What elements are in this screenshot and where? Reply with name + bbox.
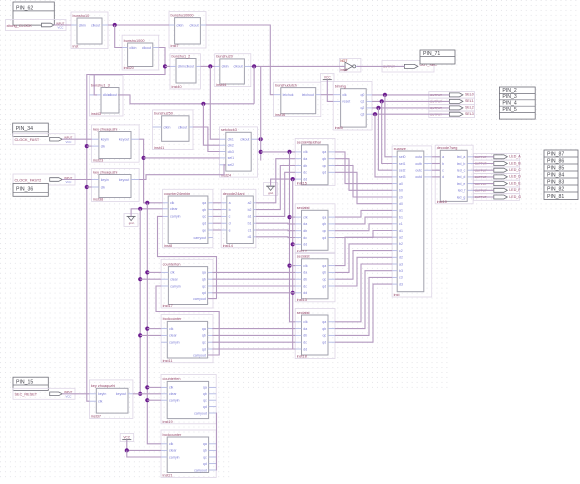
svg-text:dd: dd (303, 291, 307, 295)
svg-text:inst41: inst41 (154, 146, 164, 150)
svg-text:clkout: clkout (189, 23, 198, 27)
junction latch clk trunk start (259, 150, 263, 154)
svg-text:inst24: inst24 (221, 173, 231, 177)
svg-text:PIN_81: PIN_81 (547, 194, 564, 200)
wire down to setclock3 clk2 (203, 104, 219, 145)
wire latch clk row to seclat1 (261, 151, 296, 153)
svg-text:VCC: VCC (66, 394, 72, 398)
svg-text:qa: qa (202, 201, 206, 205)
svg-text:inst: inst (73, 45, 80, 49)
wire counterten carryout to counter24 carryin (158, 216, 217, 298)
wire tap bcdcounter clk (147, 328, 161, 330)
svg-text:inst14: inst14 (223, 244, 233, 248)
junction key clock at key2 clk (85, 185, 89, 189)
output pin LED_F (474, 187, 522, 194)
wire bunshu10000 clkout to bunshudutch clkin (206, 25, 274, 95)
svg-text:qa: qa (202, 271, 206, 275)
wire bunshu250 clkout to setclock3 clk3 (193, 127, 220, 152)
svg-text:qc: qc (322, 334, 326, 338)
svg-text:bunshu10000: bunshu10000 (171, 13, 194, 17)
svg-text:inst38: inst38 (93, 198, 103, 202)
svg-text:da: da (303, 157, 307, 161)
wire GND riser to clear net (131, 209, 163, 217)
svg-text:VCC: VCC (123, 435, 130, 439)
svg-text:keyin: keyin (101, 178, 109, 182)
svg-text:clkout: clkout (240, 138, 249, 142)
svg-text:bcdcounter: bcdcounter (163, 433, 183, 437)
svg-text:a1: a1 (399, 209, 403, 213)
svg-text:qb: qb (322, 157, 326, 161)
svg-text:clk1: clk1 (228, 138, 234, 142)
junction clear trunk top (138, 207, 142, 211)
wire counter24 qc to decode24 c (213, 215, 221, 217)
svg-text:leichuk: leichuk (283, 93, 294, 97)
svg-text:counterten: counterten (163, 262, 181, 266)
output pin LED_B (474, 160, 522, 167)
output pin SEL2 (429, 105, 475, 112)
svg-text:qa: qa (322, 264, 326, 268)
svg-text:led_e: led_e (457, 182, 466, 186)
svg-text:carryin: carryin (170, 215, 181, 219)
junction at bunshu20 clkin for setclock clk1 (208, 64, 212, 68)
svg-text:inst7: inst7 (171, 44, 179, 48)
wire biming q2 to SEL2 output (372, 107, 449, 109)
wire SEL2 to xuanze sel2 (378, 108, 392, 170)
wire decode24 a1 to seclat1 dc (256, 172, 295, 216)
junction clear tap bcdcounter (138, 333, 142, 337)
wire tap to key2 clk (87, 186, 92, 188)
wire xuanze outb to decode7seg b (432, 163, 441, 165)
junction latch clk trunk (287, 150, 291, 154)
svg-text:PIN_4: PIN_4 (502, 101, 517, 107)
svg-text:a2: a2 (248, 201, 252, 205)
svg-text:a1: a1 (248, 215, 252, 219)
svg-text:bunshu1_2: bunshu1_2 (172, 54, 191, 58)
svg-text:bcdcounter: bcdcounter (163, 317, 183, 321)
svg-text:counter24enbin: counter24enbin (164, 192, 190, 196)
wire tap seclat2 clk (290, 216, 296, 218)
svg-text:inst44: inst44 (216, 83, 226, 87)
wire scan net vertical (260, 66, 262, 160)
svg-text:inst5: inst5 (335, 126, 343, 130)
svg-text:PIN_15: PIN_15 (16, 379, 33, 385)
junction latch clk tap inst13 (287, 264, 291, 268)
svg-text:VCC: VCC (66, 180, 72, 184)
tens counter counterten U-inst17 (161, 259, 213, 308)
svg-text:clear: clear (170, 207, 178, 211)
wire bunshu10 clkout to bunshu10000 clkin (108, 24, 169, 26)
junction dd trunk top (291, 177, 295, 181)
junction SEL3 branch (373, 112, 377, 116)
svg-text:carryout: carryout (193, 236, 206, 240)
svg-text:da: da (303, 271, 307, 275)
junction key clock at key1 clk (85, 144, 89, 148)
svg-text:counterfen: counterfen (163, 377, 181, 381)
svg-text:qb: qb (202, 278, 206, 282)
wire NOT output to OUT_SEC (357, 65, 405, 67)
svg-text:sel0: sel0 (399, 155, 405, 159)
latch seclat4tjeldhar U-inst15 (295, 139, 335, 186)
wire seclat4 qa to xuanze a3 (335, 264, 392, 322)
svg-text:clk: clk (303, 150, 308, 154)
svg-text:xitong_CLOCK: xitong_CLOCK (7, 24, 33, 28)
svg-text:qd: qd (203, 462, 207, 466)
svg-text:outc: outc (415, 169, 422, 173)
svg-text:clear: clear (169, 449, 177, 453)
svg-text:dc: dc (303, 284, 307, 288)
junction SEL1 branch (380, 99, 384, 103)
wire GND to seclat1 dd (271, 179, 296, 186)
svg-text:c: c (442, 169, 444, 173)
svg-text:sel2: sel2 (399, 169, 405, 173)
output pin SEL1 (429, 98, 475, 105)
divider block bunshudutch U-inst16 (274, 82, 321, 117)
svg-text:LED_A: LED_A (509, 155, 521, 159)
output pin LED_A (474, 153, 522, 160)
input pin CLOCK_FAST2 (13, 174, 75, 185)
output pin LED_G (474, 194, 522, 201)
power symbol VCC near biming (321, 74, 335, 82)
wire seclat4 qb to xuanze b3 (335, 271, 392, 329)
svg-text:d3: d3 (399, 282, 403, 286)
svg-text:clkout: clkout (91, 23, 100, 27)
svg-text:qd: qd (203, 405, 207, 409)
wire bcdcounter qd to seclat4 dd (212, 348, 295, 350)
pin assignment box PIN_2 PIN_3 PIN_4 PIN_5 (499, 87, 535, 119)
svg-text:clk: clk (169, 386, 174, 390)
svg-text:PIN_36: PIN_36 (16, 187, 33, 193)
wire tap counterfen carryin (147, 399, 161, 401)
wire tap counterten clk (147, 271, 161, 273)
svg-text:decode7seg: decode7seg (437, 146, 458, 150)
svg-text:inst19: inst19 (163, 420, 173, 424)
wire decode7seg led_a to LED_A (473, 156, 494, 158)
wire dd trunk down (293, 179, 296, 349)
svg-text:a0: a0 (399, 182, 403, 186)
svg-text:qb: qb (322, 222, 326, 226)
junction carryin tap counterfen (145, 398, 149, 402)
svg-text:q0: q0 (360, 93, 364, 97)
svg-text:seclatst: seclatst (297, 311, 311, 315)
svg-text:qa: qa (322, 320, 326, 324)
svg-text:q3: q3 (360, 113, 364, 117)
svg-text:sel1: sel1 (399, 162, 405, 166)
wire tap seclat2 dd (293, 243, 296, 245)
wire counter24 qa to decode24 a (213, 202, 221, 204)
wire seclat4 qc to xuanze c3 (335, 277, 392, 335)
svg-text:c2: c2 (399, 249, 403, 253)
wire counter24 qb to decode24 b (213, 209, 221, 211)
svg-text:PIN_86: PIN_86 (547, 158, 564, 164)
svg-text:qa: qa (322, 215, 326, 219)
svg-text:dc: dc (303, 236, 307, 240)
wire bcdcounter qc to seclat4 dc (212, 341, 295, 343)
junction bunshu20 net branch (252, 64, 256, 68)
svg-text:db: db (303, 229, 307, 233)
svg-text:b: b (442, 162, 444, 166)
output pin SEL0 (429, 92, 475, 99)
svg-text:seclatst: seclatst (297, 255, 311, 259)
wire tap seclat3 clk (290, 265, 296, 267)
svg-text:sel2: sel2 (228, 163, 234, 167)
svg-text:d: d (229, 222, 231, 226)
svg-text:carryout: carryout (194, 411, 207, 415)
wire clk tap down to bunshu1000 clkin (115, 25, 122, 48)
wire counterfen carryout tie to bcdcounter2 carryout (215, 413, 217, 470)
svg-text:d1: d1 (399, 229, 403, 233)
svg-text:VCC: VCC (58, 26, 64, 30)
wire latch clk trunk down (290, 152, 296, 322)
divider block bunshu1_2 U-inst40 (170, 54, 200, 89)
wire seclat2 qb to xuanze b1 (335, 217, 392, 224)
wire counter24 qe to decode24 e (213, 229, 221, 231)
wire drop to bunshu1_3 clkin (94, 75, 97, 95)
wire xuanze outc to decode7seg c (432, 169, 441, 171)
wire decode24 b2 to seclat1 db (256, 166, 295, 210)
svg-text:VCC: VCC (66, 140, 72, 144)
junction clear tap counterten (138, 277, 142, 281)
svg-text:inst10: inst10 (437, 200, 447, 204)
svg-text:qb: qb (202, 334, 206, 338)
wire seclat1 qc to xuanze c0 (335, 166, 392, 198)
wire decode24 a2 to seclat1 da (256, 159, 295, 203)
wire bcdcounter qb to seclat4 db (212, 334, 295, 336)
wire bcdcounter carryout to counterten carryin (156, 286, 219, 355)
svg-text:bunshu20: bunshu20 (216, 55, 233, 59)
wire counterten qa to seclat3 da (212, 271, 295, 273)
latch seclatst U-inst18 (295, 309, 335, 359)
divider block bunshu250 U-inst41 (153, 110, 193, 150)
svg-text:inst21: inst21 (163, 474, 173, 478)
svg-text:keyin: keyin (101, 138, 109, 142)
wire seclat3 qc to xuanze c2 (335, 251, 392, 280)
svg-text:inst43: inst43 (91, 112, 101, 116)
svg-text:qe: qe (202, 228, 206, 232)
svg-text:qb: qb (202, 208, 206, 212)
svg-text:qc: qc (202, 284, 206, 288)
svg-text:inst8: inst8 (164, 244, 172, 248)
wire SEL0 to xuanze sel0 (385, 95, 392, 157)
svg-text:PIN_82: PIN_82 (547, 186, 564, 192)
svg-text:PIN_87: PIN_87 (547, 151, 564, 157)
junction counters clk trunk (145, 201, 149, 205)
wire SEL3 to xuanze sel3 (375, 114, 392, 177)
svg-text:led_c: led_c (457, 169, 466, 173)
svg-text:a: a (442, 155, 444, 159)
svg-text:clkin: clkin (129, 46, 136, 50)
svg-text:qa: qa (203, 386, 207, 390)
svg-text:clkin: clkin (163, 125, 170, 129)
svg-text:carryout: carryout (193, 297, 206, 301)
svg-text:seclat4tjeldhar: seclat4tjeldhar (297, 141, 322, 145)
wire seclat1 qb to xuanze b0 (335, 159, 392, 191)
svg-text:qd: qd (322, 341, 326, 345)
svg-text:seclatst: seclatst (297, 206, 311, 210)
pin assignment box PIN_71 (420, 50, 455, 64)
svg-text:carryin: carryin (169, 455, 180, 459)
svg-text:clkout: clkout (108, 93, 117, 97)
svg-text:qd: qd (322, 171, 326, 175)
svg-text:clear: clear (169, 334, 177, 338)
svg-text:led_b: led_b (457, 162, 466, 166)
wire decode24 c1 to seclat2 db (256, 229, 295, 232)
svg-text:led_d: led_d (457, 175, 466, 179)
svg-text:qc: qc (202, 341, 206, 345)
svg-text:PIN_84: PIN_84 (547, 172, 564, 178)
minute counter counterfen U-inst19 (161, 375, 216, 425)
svg-text:db: db (303, 334, 307, 338)
svg-text:inst6: inst6 (340, 68, 347, 72)
svg-text:biming: biming (335, 85, 346, 89)
svg-text:keyout: keyout (116, 392, 126, 396)
svg-text:d2: d2 (399, 256, 403, 260)
wire clear trunk (139, 209, 141, 394)
junction clk tap bcdcounter (145, 327, 149, 331)
svg-text:clk: clk (303, 215, 308, 219)
svg-text:LED_D: LED_D (509, 175, 521, 179)
wire counterten qb to seclat3 db (212, 278, 295, 280)
input pin SEC_RESET (13, 388, 75, 399)
junction clear joins key3 keyout (138, 392, 142, 396)
svg-text:key zhuaquzhi: key zhuaquzhi (91, 384, 115, 388)
clock set mux setclock3 U-inst24 (220, 127, 258, 177)
wire CLOCK_FAST2 to key2 keyin (62, 179, 91, 181)
svg-text:qc: qc (322, 229, 326, 233)
ground symbol GND near latches (264, 183, 278, 196)
pin assignment box PIN_62 (13, 2, 54, 25)
junction clk tap counterten (145, 270, 149, 274)
key debounce key_zhuaquzhi U-inst37 (89, 380, 132, 419)
svg-text:SEL3: SEL3 (465, 112, 474, 116)
wire decode7seg led_f to LED_F (473, 189, 494, 191)
svg-text:d1: d1 (248, 235, 252, 239)
svg-text:carryin: carryin (170, 284, 181, 288)
svg-text:carryout: carryout (193, 353, 206, 357)
wire decode7seg led_e to LED_E (473, 183, 494, 185)
svg-text:c: c (229, 215, 231, 219)
svg-text:clkin: clkin (178, 65, 185, 69)
divider block bunshu1000 U-inst20 (122, 35, 159, 70)
svg-text:PIN_62: PIN_62 (16, 5, 33, 11)
svg-text:clkin: clkin (222, 65, 229, 69)
svg-text:PIN_85: PIN_85 (547, 165, 564, 171)
svg-text:bunshu10: bunshu10 (73, 14, 90, 18)
svg-text:q2: q2 (360, 106, 364, 110)
svg-text:clk: clk (303, 320, 308, 324)
wire biming q3 to SEL3 output (372, 113, 449, 115)
svg-text:clk: clk (170, 201, 175, 205)
wire xitong_CLOCK to bunshu10 clkin (54, 24, 72, 26)
wire CLOCK_FAST to key1 keyin (62, 138, 91, 140)
svg-text:key zhuaquzhi: key zhuaquzhi (93, 127, 117, 131)
wire biming q1 to SEL1 output (372, 100, 449, 102)
wire bcdcounter qa to seclat4 da (212, 328, 295, 330)
scan counter biming U-inst5 (333, 81, 372, 130)
svg-text:keyout: keyout (119, 138, 129, 142)
svg-text:decode24ani: decode24ani (223, 192, 245, 196)
svg-text:SEL0: SEL0 (465, 93, 474, 97)
svg-text:led_a: led_a (457, 155, 466, 159)
svg-text:inst: inst (394, 293, 401, 297)
svg-text:qc: qc (322, 164, 326, 168)
junction key1 net to setclock sel1 (142, 156, 146, 160)
svg-text:b3: b3 (399, 269, 403, 273)
svg-text:q1: q1 (360, 100, 364, 104)
junction on 1_3 net to setclock clk2 (201, 102, 205, 106)
svg-text:PIN_71: PIN_71 (423, 51, 440, 57)
7-segment decoder decode7seg U-inst10 (435, 145, 473, 204)
svg-text:db: db (303, 278, 307, 282)
wire VCC to bcdcounter2 clear (127, 440, 161, 451)
svg-text:sel1: sel1 (228, 156, 234, 160)
svg-text:gnd: gnd (268, 191, 273, 195)
svg-text:inst20: inst20 (124, 66, 134, 70)
junction latch clk tap inst12 (287, 215, 291, 219)
wire SEL1 to xuanze sel1 (382, 101, 392, 163)
svg-text:da: da (303, 222, 307, 226)
wire decode7seg led_g to LED_G (473, 196, 494, 198)
wire seclat1 qd to xuanze d0 (335, 172, 392, 203)
svg-text:xuanze: xuanze (394, 147, 406, 151)
wire setclock3 clkout stub (258, 138, 261, 140)
svg-text:clk: clk (303, 264, 308, 268)
svg-text:inst18: inst18 (297, 355, 307, 359)
junction bunshu1000 net to bunshu1_2 (163, 64, 167, 68)
hour counter counter24enbin U-inst8 (163, 189, 213, 248)
wire biming q0 to SEL0 output (372, 94, 449, 96)
svg-text:b2: b2 (248, 208, 252, 212)
svg-text:inst16: inst16 (275, 113, 285, 117)
wire VCC branch to bcdcounter2 carryin (127, 450, 161, 457)
svg-text:clk: clk (101, 144, 106, 148)
svg-text:inst17: inst17 (163, 304, 173, 308)
svg-text:qc: qc (203, 455, 207, 459)
svg-text:b1: b1 (248, 222, 252, 226)
svg-text:outa: outa (415, 155, 422, 159)
wire tap seclat3 dd (293, 292, 296, 294)
wire bunshu20 clkout to NOT input (251, 65, 345, 67)
svg-text:inst40: inst40 (172, 85, 182, 89)
wire tap bcdcounter clear (140, 334, 161, 336)
pin assignment box PIN_87 - PIN_81 (544, 150, 578, 200)
minute units counter bcdcounter U-inst21 (161, 430, 216, 478)
wire seclat2 qd to xuanze d1 (335, 231, 392, 238)
svg-text:qd: qd (322, 236, 326, 240)
wire key1 keyout trunk (139, 139, 163, 203)
svg-text:keyin: keyin (98, 392, 106, 396)
svg-text:clkout: clkout (233, 65, 242, 69)
output pin LED_C (474, 167, 522, 174)
svg-text:keyout: keyout (119, 178, 129, 182)
svg-text:dd: dd (303, 243, 307, 247)
wire bunshu1000 clkout trunk (87, 48, 165, 402)
inverter NOT U-inst6 (339, 59, 361, 73)
output pin OUT_SEC (382, 61, 437, 73)
svg-text:b0: b0 (399, 189, 403, 193)
svg-text:clkout: clkout (178, 125, 187, 129)
svg-text:clk: clk (342, 93, 347, 97)
svg-text:dc: dc (303, 171, 307, 175)
wire SEC_RESET to key3 keyin (62, 393, 89, 395)
wire bunshudutch leichout to biming clk (321, 94, 333, 96)
svg-text:LED_E: LED_E (509, 181, 521, 185)
junction VCC net at clear (125, 448, 129, 452)
svg-text:clkin: clkin (79, 23, 86, 27)
svg-text:c1: c1 (248, 228, 252, 232)
wire down to setclock3 clk1 (210, 66, 219, 139)
svg-text:qd: qd (202, 222, 206, 226)
svg-text:leichout: leichout (302, 93, 314, 97)
